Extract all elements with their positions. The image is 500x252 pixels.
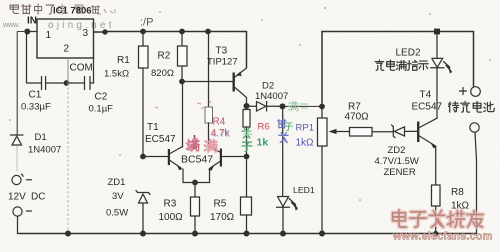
ground rail bottom (18, 233, 477, 235)
node R2 bottom T3 base junction (179, 79, 185, 85)
node LED1 top (280, 103, 286, 109)
watermark row1 chars top-left (10, 4, 100, 14)
transistor T4 EC547 (417, 118, 437, 148)
transistor T2 BC547 (208, 149, 247, 183)
wire COM node down to ground rail faint (67, 83, 69, 232)
node R2 top (179, 29, 185, 35)
node output pin3 (102, 29, 107, 34)
watermark pink specks (155, 100, 211, 109)
diode D2 (247, 102, 283, 112)
wire R2 node down to T1 collector (182, 82, 184, 148)
potentiometer RP1 (321, 107, 323, 119)
resistor R4 vertical on 209 line (208, 32, 210, 108)
node RP1 top (319, 104, 325, 110)
node rail RP1 (319, 231, 325, 237)
node rail LED1 (280, 231, 286, 237)
resistor R5 (241, 197, 252, 215)
watermark green glyph on 247 column (242, 128, 252, 151)
wire D1 to plus terminal faint (16, 146, 18, 172)
wire pin2 to COM node (67, 58, 69, 83)
watermark trail marks (97, 9, 115, 14)
node square LED2 top (434, 29, 440, 35)
node rail ZD1 (140, 231, 146, 237)
terminal battery plus (471, 87, 481, 97)
label charge full indicator (375, 60, 428, 70)
wire input to IC pin1 (27, 31, 37, 33)
capacitor C2 (85, 77, 91, 90)
transistor T1 EC547 (143, 147, 183, 171)
IC1 7806 regulator box (37, 19, 94, 58)
diode D1 (11, 135, 24, 145)
watermark blue glyphs on LED1 column (277, 119, 288, 142)
node rail R5 (244, 231, 250, 237)
resistor R8 (432, 185, 441, 206)
resistor R6 on 247 column (243, 110, 250, 128)
capacitor C1 (42, 77, 46, 90)
node rail COM (65, 231, 71, 237)
node T2 base junction (244, 154, 250, 160)
resistor R7 (350, 128, 373, 137)
node input corner (24, 29, 30, 35)
wire top right rail (322, 32, 474, 107)
node R4 top (205, 29, 211, 35)
wire T4 collector to LED2 (436, 68, 438, 118)
resistor R2 (181, 32, 183, 47)
terminal minus 12V (13, 207, 22, 216)
node T1 base (140, 154, 146, 160)
wire T3 base (182, 81, 233, 83)
wire output top rail (94, 32, 247, 69)
RP1 wiper arrow (336, 131, 350, 133)
label battery to charge (449, 102, 495, 113)
wire battery minus down to rail (475, 132, 477, 233)
node rail R3 (192, 231, 198, 237)
node D2 anode junction (244, 103, 250, 109)
node R1 top (140, 29, 146, 35)
watermark red elecfans bottom right (393, 210, 483, 227)
LED1 (277, 197, 290, 234)
node COM junction (64, 80, 70, 86)
wire LED1 column (282, 106, 284, 196)
watermark row2 www ojing net (2, 17, 153, 32)
node emitter junction (192, 180, 198, 186)
terminal plus 12V (12, 175, 21, 184)
wire input branch to D1 (17, 32, 26, 136)
wire down to R5 (246, 157, 248, 198)
wire D2 to RP1 column broken faint (283, 105, 323, 107)
resistor R3 (194, 183, 196, 198)
wire T4 emitter to R8 (435, 147, 437, 186)
zener ZD1 (136, 191, 150, 234)
wire left vertical down from input node (26, 32, 28, 84)
node rail R8 (433, 231, 438, 236)
resistor R1 (142, 32, 144, 47)
LED2 (431, 32, 445, 68)
scan specks (9, 7, 491, 201)
watermark pink glyphs centre (186, 135, 216, 152)
watermark green smudge on D2 wire (288, 102, 308, 111)
terminal battery minus (470, 123, 479, 132)
transistor T3 TIP127 (233, 68, 247, 106)
wire emitters join (183, 169, 210, 183)
wire C1 C2 ground row (27, 58, 94, 83)
wire minus terminal to ground rail (17, 216, 19, 233)
zener ZD2 (392, 125, 418, 138)
